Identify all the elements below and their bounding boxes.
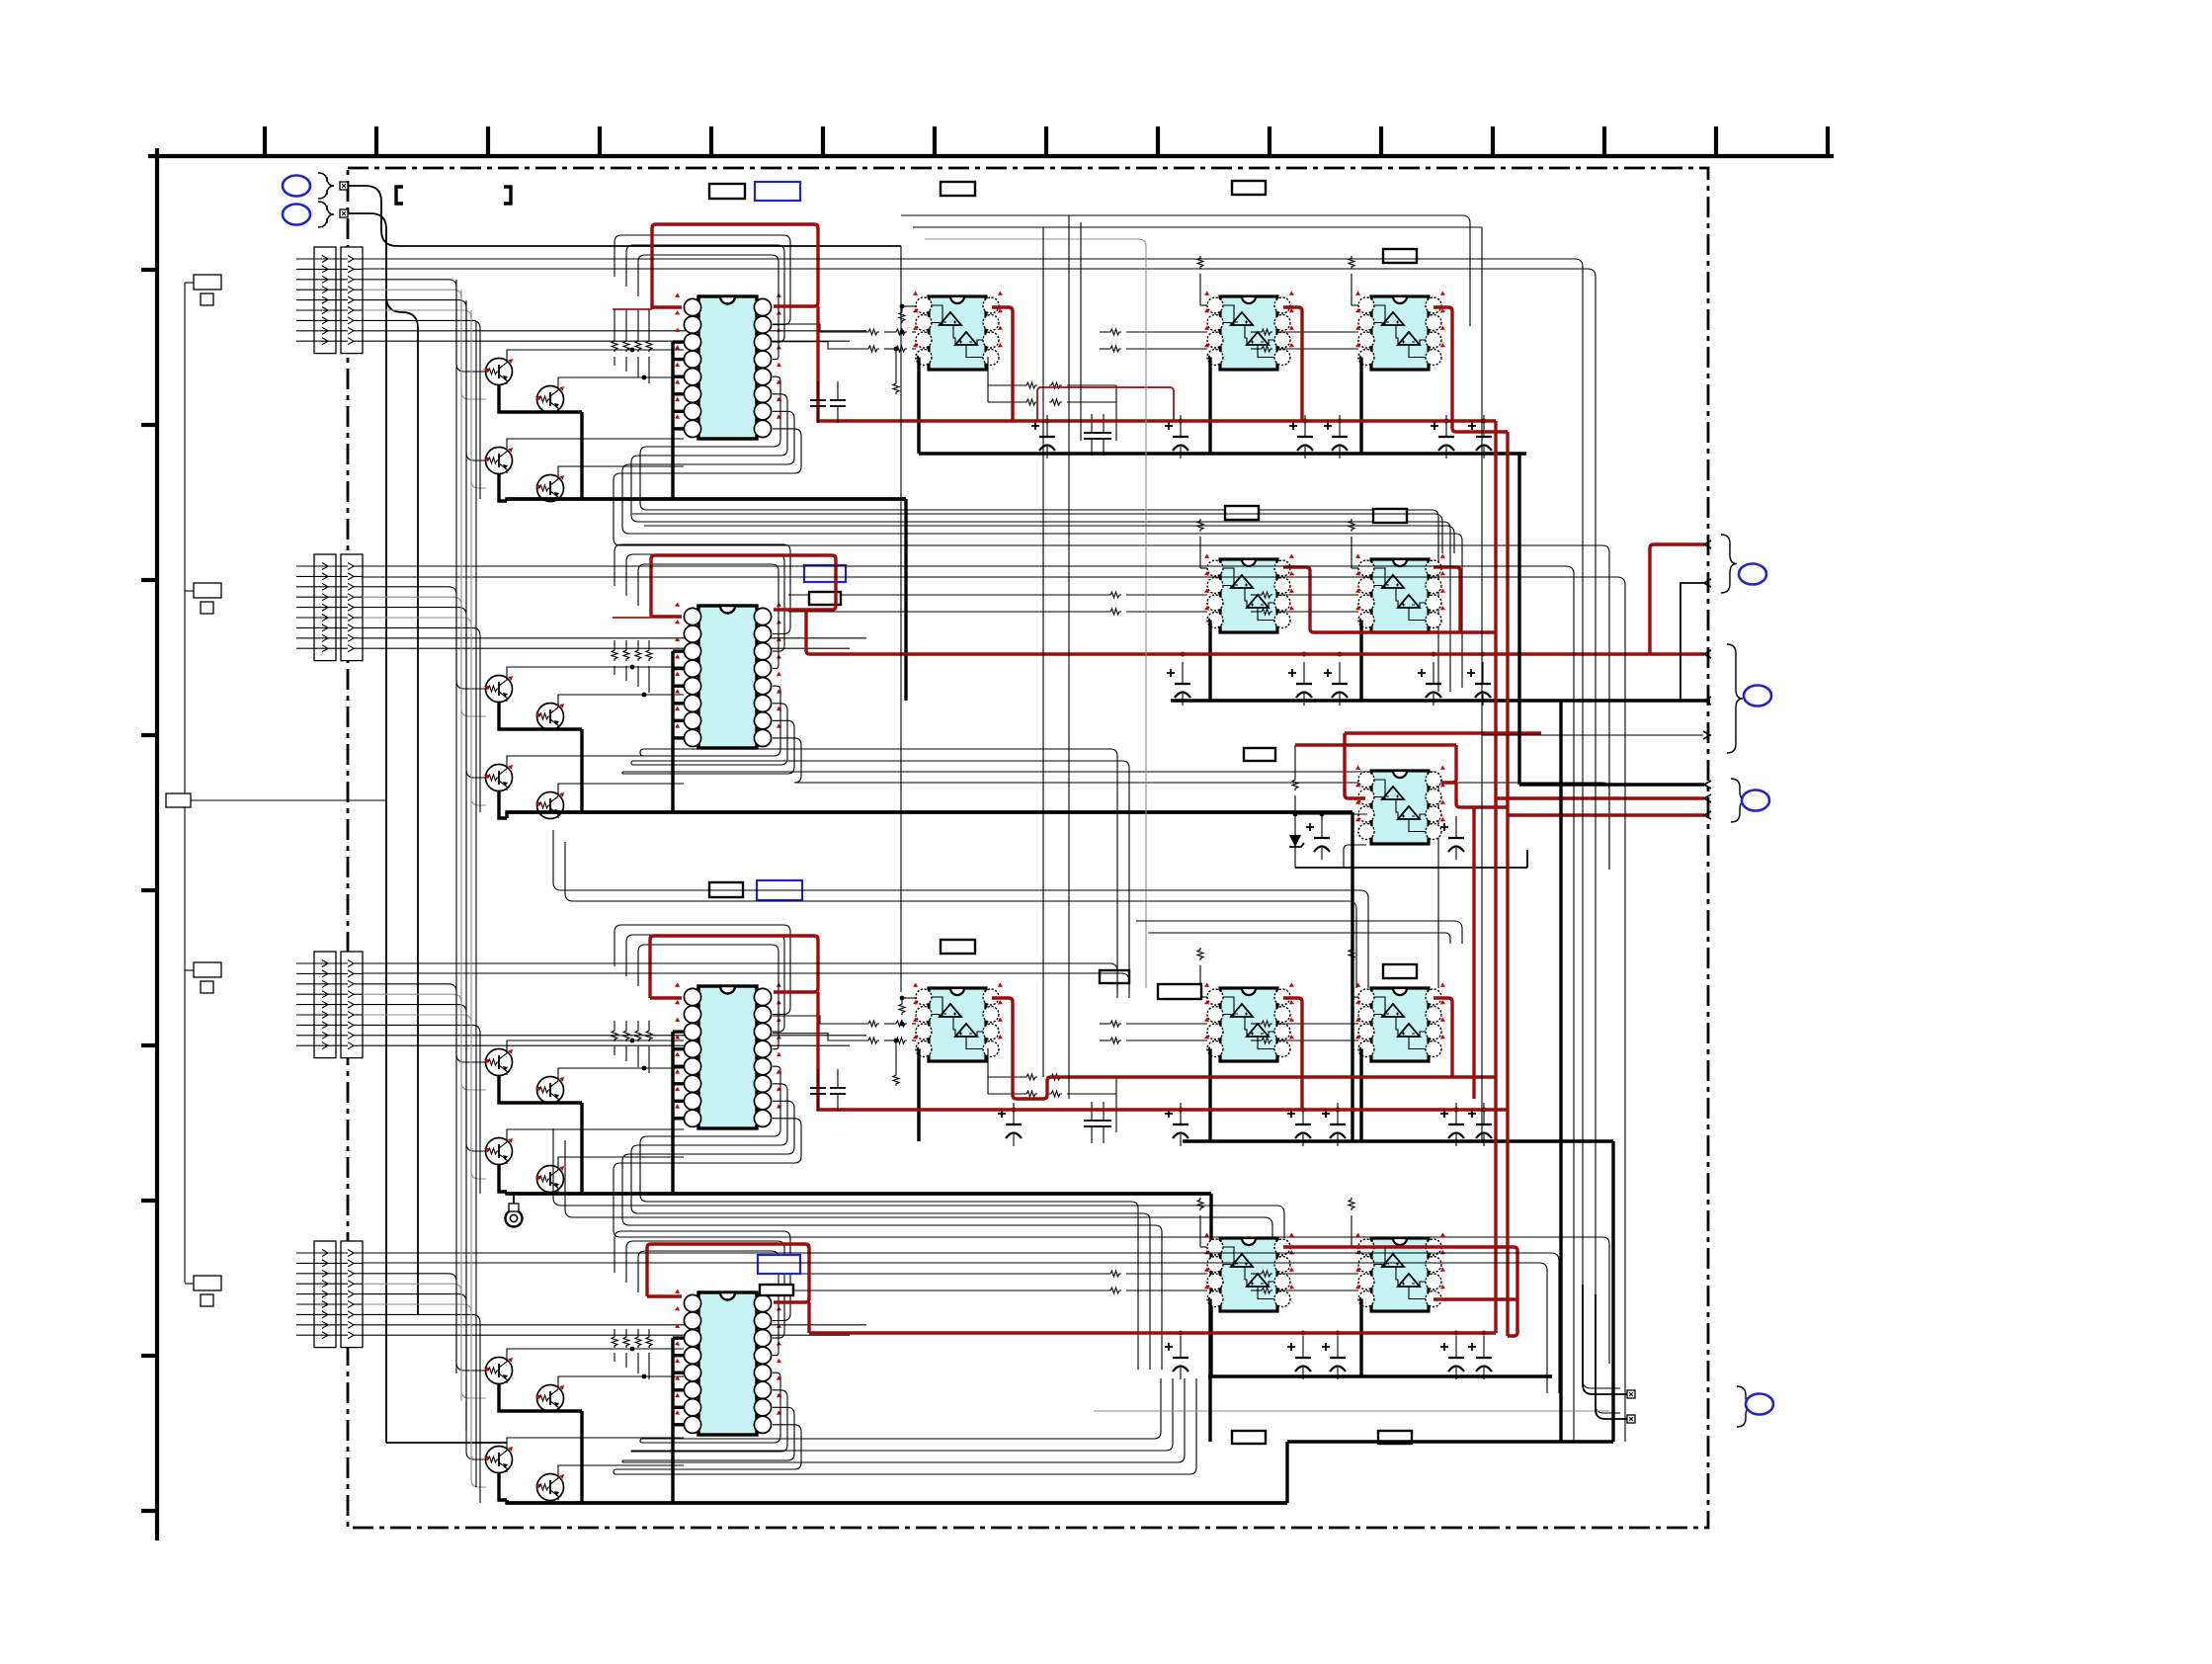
resistors at op-amp C3 <box>1251 948 1358 1043</box>
label box C3 <box>941 940 975 954</box>
wire bus drop A <box>904 499 907 701</box>
red M loop <box>1295 733 1541 807</box>
transistor QA3 <box>484 448 513 474</box>
red power wiring <box>613 224 1704 1336</box>
label box B2 <box>809 592 841 605</box>
op-amp IC B1 <box>1204 554 1294 633</box>
wire IC left bus A <box>673 342 684 499</box>
resistor array RB <box>612 640 652 693</box>
wire bus connector D <box>363 1274 866 1503</box>
label box D3 <box>1232 1431 1266 1444</box>
transistor QB2 <box>535 704 564 730</box>
capacitor CM1 <box>1306 816 1330 860</box>
label box B1 <box>804 565 846 582</box>
transistor QA4 <box>535 475 564 502</box>
wire return bus C <box>507 1192 1211 1195</box>
top-left input connectors <box>283 173 348 227</box>
wire emitter bus A <box>499 384 906 501</box>
dash-dot board outline <box>348 168 1708 1528</box>
wire ground bus A <box>919 452 1526 455</box>
ruler border with tick marks <box>141 126 1834 1540</box>
wire op gnd B1 <box>1208 621 1210 702</box>
transistor QC2 <box>535 1077 564 1104</box>
wire ground bus C <box>1183 1139 1613 1142</box>
transistor QD4 <box>535 1474 564 1501</box>
transistor QD1 <box>484 1358 513 1384</box>
connector CND <box>296 1241 363 1348</box>
transistor QC4 <box>535 1166 564 1193</box>
wire return bus B <box>507 810 1352 813</box>
label box PCB A1 <box>709 184 745 199</box>
resistors at op-amp C1 <box>773 996 1116 1132</box>
op-amp IC C1 <box>913 983 1003 1062</box>
label box B3 <box>1225 506 1259 520</box>
wire op gnd A2 <box>1208 358 1210 455</box>
left service jumper links <box>166 275 221 1306</box>
wire return bus A <box>507 497 906 500</box>
capacitor pair A <box>810 381 846 423</box>
wire thick interconnect verticals <box>1210 454 1704 1503</box>
capacitor bank D <box>1165 1331 1492 1379</box>
transistor QA2 <box>535 386 564 413</box>
wire collector C <box>507 1039 684 1166</box>
transistor QB3 <box>484 765 513 791</box>
resistors at op-amp A3 <box>1251 256 1358 352</box>
op-amp IC D2 <box>1355 1233 1445 1312</box>
wire emitter bus B <box>499 702 1352 818</box>
wire IC loops B <box>614 544 1609 992</box>
transistor QD2 <box>535 1385 564 1412</box>
capacitor bank B <box>1167 652 1491 706</box>
wire op gnd C1 <box>917 1049 919 1142</box>
bracket label <box>396 187 511 204</box>
wire op gnd B2 <box>1359 621 1361 702</box>
wire terminal buses <box>348 186 901 1443</box>
label box A2 <box>941 182 975 196</box>
wire bus connector B <box>363 587 866 812</box>
op-amp IC C3 <box>1355 983 1445 1062</box>
transistor QD3 <box>484 1447 513 1473</box>
wire collector D <box>507 1347 684 1474</box>
transistor QC3 <box>484 1138 513 1165</box>
op-amp IC A1 <box>913 291 1003 371</box>
resistors at op-amp A1 <box>773 304 1116 441</box>
transistor QB4 <box>535 792 564 819</box>
transistor QC1 <box>484 1049 513 1076</box>
wire IC left bus D <box>673 1338 684 1503</box>
transistor QA1 <box>484 359 513 385</box>
resistor array RC <box>612 1021 652 1073</box>
bottom-right connector <box>1583 1285 1773 1427</box>
wire return bus D <box>507 1501 1287 1504</box>
label box D1 <box>758 1255 800 1274</box>
resistors at op-amp B2 <box>1251 519 1358 615</box>
resistors at op-amp C2 <box>1100 948 1207 1043</box>
label box D2 <box>760 1285 793 1295</box>
resistors at op-amp B1 <box>788 519 1207 615</box>
wire op gnd C2 <box>1208 1049 1210 1142</box>
wire op gnd D1 <box>1208 1299 1210 1377</box>
op-amp IC A3 <box>1355 291 1445 371</box>
wire bus connector A <box>363 280 866 499</box>
zener diode DM1 <box>1289 814 1304 868</box>
label box C5 <box>1383 964 1417 978</box>
resistor array RA <box>612 309 652 383</box>
IC (BA) D big driver <box>675 1290 781 1436</box>
wire IC loops A <box>614 235 1609 870</box>
wire IC loops C <box>614 925 1609 1370</box>
wire emitter bus D <box>499 1383 1287 1503</box>
wire bus drop B <box>1351 812 1353 1141</box>
wire IC left bus B <box>673 651 684 812</box>
wire collector B <box>507 665 684 792</box>
label box C4b <box>1158 984 1201 999</box>
wire collector A <box>507 348 684 475</box>
label box A3 <box>1232 181 1266 195</box>
wire ground bus B <box>1171 699 1710 702</box>
op-amp IC C2 <box>1204 983 1294 1062</box>
op-amp IC M regulator <box>1355 766 1445 845</box>
resistors at op-amp D2 <box>1251 1198 1358 1293</box>
IC (BA) C big driver <box>675 983 781 1129</box>
capacitor bank A <box>1031 414 1492 458</box>
connector CNA <box>296 247 363 354</box>
resistors at op-amp D1 <box>788 1198 1207 1293</box>
wire long interconnects <box>191 215 1625 1487</box>
IC (BA) A big driver <box>675 293 781 440</box>
resistor array RD <box>612 1329 652 1379</box>
connector CNC <box>296 952 363 1058</box>
capacitor bank C <box>998 1102 1492 1146</box>
wire M block <box>1292 745 1527 868</box>
wire op gnd A3 <box>1359 358 1361 455</box>
IC (BA) B big driver <box>675 603 781 749</box>
label box C4 <box>1100 970 1129 983</box>
resistors at op-amp A2 <box>1100 256 1207 352</box>
label box D4 <box>1378 1431 1412 1444</box>
wire emitter bus C <box>499 1075 1211 1194</box>
capacitor CM2 <box>1440 816 1464 860</box>
wire op gnd A1 <box>917 358 919 455</box>
capacitor pair C <box>810 1069 846 1111</box>
connector CNB <box>296 554 363 661</box>
right output connectors <box>1482 535 1771 822</box>
wire IC left bus C <box>673 1032 684 1194</box>
label box C1 <box>709 882 743 897</box>
wire IC loops D <box>614 1231 1196 1474</box>
label box PCB A1b <box>755 182 800 201</box>
wire ground bus D <box>1208 1374 1552 1377</box>
label box A4 <box>1383 249 1417 263</box>
chassis ground lug <box>506 1192 523 1227</box>
label box M1 <box>1244 748 1275 761</box>
label box B4 <box>1373 509 1407 523</box>
op-amp IC A2 <box>1204 291 1294 371</box>
op-amp IC D1 <box>1204 1233 1294 1312</box>
transistor QB1 <box>484 676 513 703</box>
op-amp IC B2 <box>1355 554 1445 633</box>
wire op gnd D2 <box>1359 1299 1361 1377</box>
wire op gnd C3 <box>1359 1049 1361 1142</box>
label box C2 <box>757 880 802 900</box>
wire bus connector C <box>363 984 866 1194</box>
wire bus drop C <box>1209 1194 1212 1376</box>
